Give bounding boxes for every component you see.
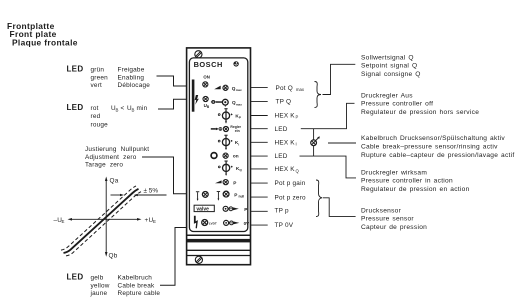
svg-text:Adjustment zero: Adjustment zero — [85, 154, 137, 161]
svg-text:LED: LED — [275, 153, 288, 160]
svg-text:BOSCH: BOSCH — [194, 60, 223, 69]
svg-text:E: E — [153, 219, 156, 224]
svg-text:Regulateur de pression hors se: Regulateur de pression hors service — [361, 109, 479, 116]
svg-text:TP Q: TP Q — [276, 99, 292, 106]
svg-text:LED: LED — [67, 65, 84, 74]
svg-text:HEX K: HEX K — [275, 166, 296, 173]
svg-text:Cable break: Cable break — [118, 282, 155, 289]
svg-text:on: on — [233, 154, 239, 159]
svg-text:Pot p gain: Pot p gain — [275, 180, 306, 187]
svg-text:Sollwertsignal Q: Sollwertsignal Q — [361, 54, 414, 61]
svg-text:LED: LED — [67, 103, 84, 112]
svg-text:Pot Q: Pot Q — [276, 85, 293, 92]
svg-text:Repture cable: Repture cable — [118, 290, 161, 297]
svg-text:grün: grün — [91, 67, 105, 74]
svg-text:<: < — [121, 105, 125, 112]
svg-text:P: P — [234, 192, 237, 197]
svg-text:max: max — [236, 102, 242, 106]
svg-text:P: P — [244, 207, 247, 212]
svg-text:Regulateur de pression en acti: Regulateur de pression en action — [361, 186, 470, 193]
svg-text:Capteur de pression: Capteur de pression — [361, 224, 427, 231]
svg-text:I: I — [238, 142, 239, 146]
svg-text:Qa: Qa — [110, 178, 119, 185]
svg-text:P: P — [239, 116, 241, 120]
svg-text:Rupture cable–capteur de press: Rupture cable–capteur de pression/lavage… — [361, 152, 515, 159]
svg-text:valve: valve — [196, 206, 209, 212]
svg-text:Tarage zero: Tarage zero — [85, 162, 123, 169]
svg-text:HEX K: HEX K — [275, 113, 296, 120]
svg-text:jaune: jaune — [90, 290, 108, 297]
svg-text:TP p: TP p — [275, 207, 289, 214]
svg-text:Enabling: Enabling — [118, 74, 145, 81]
svg-text:Qb: Qb — [109, 253, 118, 260]
svg-text:max: max — [236, 88, 242, 92]
svg-text:Justierung Nullpunkt: Justierung Nullpunkt — [85, 146, 149, 153]
svg-text:Signal consigne Q: Signal consigne Q — [361, 71, 421, 78]
svg-text:ein: ein — [235, 129, 240, 133]
svg-text:I: I — [296, 142, 297, 147]
svg-text:Pressure controller off: Pressure controller off — [361, 101, 433, 108]
svg-text:Druckregler wirksam: Druckregler wirksam — [361, 169, 427, 176]
svg-text:LED: LED — [275, 126, 288, 133]
svg-text:TP 0V: TP 0V — [275, 222, 294, 229]
svg-text:Pressure sensor: Pressure sensor — [361, 216, 414, 223]
svg-text:rouge: rouge — [91, 122, 109, 129]
svg-text:max: max — [296, 87, 305, 92]
svg-text:HEX K: HEX K — [275, 139, 296, 146]
svg-text:Plaque frontale: Plaque frontale — [12, 38, 78, 48]
svg-text:P: P — [233, 180, 236, 185]
svg-text:red: red — [91, 113, 101, 120]
svg-text:LVDT: LVDT — [209, 221, 217, 225]
svg-text:green: green — [91, 74, 109, 81]
svg-text:min: min — [137, 105, 148, 112]
svg-text:B: B — [116, 107, 119, 112]
svg-text:0V: 0V — [244, 221, 250, 226]
svg-text:Kabelbruch Drucksensor/Spülsch: Kabelbruch Drucksensor/Spülschaltung akt… — [361, 135, 505, 142]
svg-text:Pot p zero: Pot p zero — [275, 194, 307, 201]
svg-text:E: E — [62, 219, 65, 224]
svg-text:rot: rot — [91, 105, 99, 112]
svg-text:Drucksensor: Drucksensor — [361, 207, 402, 214]
svg-text:ON: ON — [203, 75, 209, 80]
svg-text:± 5%: ± 5% — [144, 188, 159, 195]
svg-text:null: null — [239, 195, 245, 199]
svg-text:gelb: gelb — [91, 275, 104, 282]
svg-text:LED: LED — [67, 273, 84, 282]
svg-text:Pressure controller in action: Pressure controller in action — [361, 178, 453, 185]
svg-text:Cable break–pressure sensor/ri: Cable break–pressure sensor/rinsing acti… — [361, 143, 498, 150]
svg-text:vert: vert — [91, 82, 103, 89]
svg-text:P: P — [296, 115, 299, 120]
svg-text:Freigabe: Freigabe — [118, 67, 145, 74]
svg-text:yellow: yellow — [91, 282, 110, 289]
svg-text:Setpoint signal Q: Setpoint signal Q — [361, 63, 417, 70]
svg-text:Kabelbruch: Kabelbruch — [118, 275, 153, 282]
svg-text:Déblocage: Déblocage — [118, 82, 151, 89]
svg-text:Druckregler Aus: Druckregler Aus — [361, 92, 413, 99]
svg-text:B: B — [132, 107, 135, 112]
